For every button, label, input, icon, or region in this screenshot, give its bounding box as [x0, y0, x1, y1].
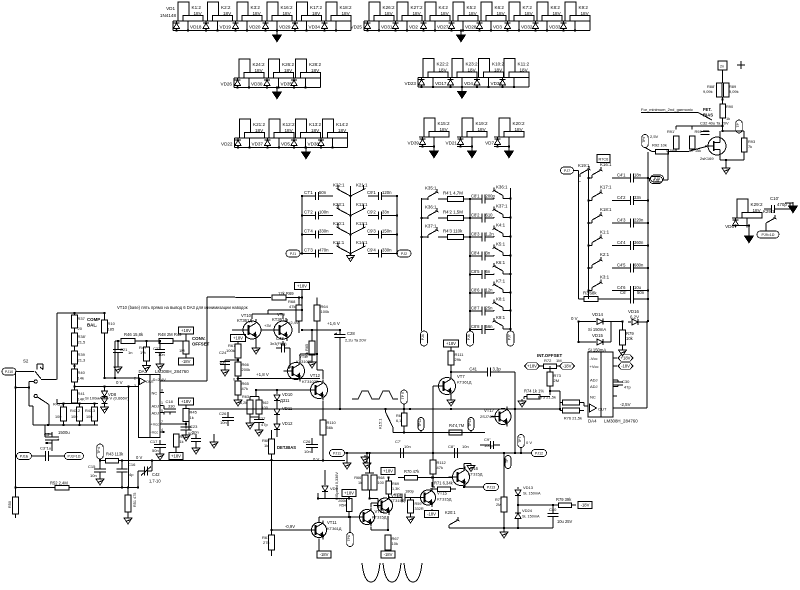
ground [725, 166, 727, 168]
resistor R62 [256, 400, 262, 414]
svg-text:PJ7: PJ7 [564, 169, 570, 173]
relay K23:2 [452, 59, 463, 78]
wire VT12 [305, 389, 311, 391]
svg-text:R4'1 4,7M: R4'1 4,7M [443, 191, 463, 196]
wire bottom [449, 527, 553, 529]
capacitor C9'4 [368, 253, 379, 255]
ground A [311, 360, 313, 362]
capacitor C9'1 [368, 195, 379, 197]
svg-text:2,5V: 2,5V [650, 134, 659, 139]
wire DA4 out up [646, 321, 648, 408]
svg-text:100: 100 [86, 415, 92, 419]
svg-text:14k: 14k [78, 376, 84, 381]
capacitor C7'1 [302, 195, 316, 197]
node [509, 328, 511, 330]
svg-text:NC: NC [590, 395, 596, 400]
ground A [622, 348, 624, 350]
ground A [503, 530, 505, 532]
resistor R93 [741, 138, 747, 152]
svg-text:18V: 18V [413, 11, 422, 16]
terminal +18Vc [169, 453, 183, 460]
svg-text:VD10: VD10 [282, 392, 293, 397]
svg-text:R37: R37 [78, 316, 86, 321]
svg-text:47k: 47k [289, 304, 295, 309]
svg-text:VD16: VD16 [628, 309, 640, 314]
resistor R90 [720, 104, 726, 118]
terminal PJ2 [397, 250, 411, 257]
wire center bus [350, 186, 352, 254]
svg-text:R39: R39 [78, 352, 86, 357]
resistor R65b 10k [309, 341, 315, 355]
svg-text:PJ2: PJ2 [401, 252, 407, 256]
svg-text:K1:2: K1:2 [192, 5, 202, 10]
svg-text:9,09k: 9,09k [729, 89, 739, 94]
node [409, 408, 411, 410]
svg-text:PJ4: PJ4 [421, 334, 425, 340]
svg-text:C8'4: C8'4 [471, 251, 480, 256]
svg-text:12n: 12n [486, 288, 494, 293]
svg-text:K7:2: K7:2 [523, 5, 533, 10]
op-amp triangle [590, 404, 597, 412]
svg-text:K10:2: K10:2 [492, 62, 504, 67]
terminal PJ1Б [17, 453, 32, 460]
svg-text:VD12: VD12 [282, 421, 293, 426]
svg-text:TP 6: TP 6 [97, 447, 101, 454]
node [509, 273, 511, 275]
relay K26:2 [369, 2, 380, 21]
svg-text:K17:2: K17:2 [310, 5, 322, 10]
wire [271, 460, 273, 530]
svg-text:R43.3: R43.3 [85, 409, 95, 413]
waveform [352, 391, 398, 399]
svg-text:1k: 1k [264, 443, 268, 448]
svg-text:NC: NC [152, 391, 158, 396]
svg-text:18V: 18V [753, 208, 762, 213]
terminal TP9 [642, 135, 649, 148]
resistor R43.2 [77, 407, 83, 421]
svg-text:PJ6: PJ6 [467, 334, 471, 340]
svg-text:0 V: 0 V [571, 316, 578, 321]
svg-text:18V: 18V [515, 127, 524, 132]
svg-text:1k: 1k [190, 415, 194, 420]
ground A [117, 365, 119, 367]
svg-text:ADJ: ADJ [590, 384, 598, 389]
svg-text:COMP: COMP [87, 317, 100, 322]
svg-text:18V: 18V [494, 68, 503, 73]
svg-text:C23: C23 [190, 424, 198, 429]
resistor R50 [13, 497, 19, 514]
wire rcol right bus [647, 152, 649, 321]
svg-text:VD33: VD33 [549, 25, 561, 30]
svg-text:R7C6: R7C6 [599, 158, 609, 162]
terminal +18V [179, 398, 194, 405]
ground A [99, 477, 101, 479]
svg-text:50n: 50n [152, 448, 159, 453]
svg-text:K18:2: K18:2 [340, 5, 352, 10]
svg-text:K12:2: K12:2 [283, 122, 295, 127]
svg-text:C7'1: C7'1 [304, 190, 313, 195]
resistor R54 200k [346, 499, 352, 512]
terminal PJ [467, 331, 474, 346]
svg-text:18V: 18V [283, 11, 292, 16]
svg-text:HISpeed 0,336V: HISpeed 0,336V [335, 472, 339, 500]
svg-text:K19:1: K19:1 [578, 163, 590, 168]
relay K29:2 [737, 199, 748, 218]
svg-text:VD4: VD4 [464, 81, 473, 86]
wire [419, 146, 434, 148]
relay K26:2 [269, 59, 280, 78]
wire vt11 col [318, 517, 320, 523]
resistor R110 56k [320, 420, 326, 435]
svg-text:3: 3 [134, 384, 136, 388]
wire VT10-VT9 [232, 329, 243, 331]
transistor VT11 [312, 523, 327, 538]
diode VD37 junction [237, 146, 239, 148]
wire [785, 202, 793, 204]
svg-text:+18V: +18V [527, 364, 537, 369]
wire VT7 [450, 372, 452, 378]
svg-text:18V: 18V [385, 11, 394, 16]
svg-text:100: 100 [71, 415, 77, 419]
svg-text:+18V: +18V [446, 341, 456, 346]
relay K4:2 [425, 2, 436, 21]
svg-text:18V: 18V [311, 128, 320, 133]
ground A [366, 461, 368, 463]
svg-text:18V: 18V [284, 68, 293, 73]
svg-text:0 V: 0 V [313, 457, 319, 462]
svg-text:10k R65: 10k R65 [305, 344, 309, 358]
ground A [350, 254, 352, 256]
svg-text:R50: R50 [8, 501, 12, 508]
svg-text:3,3p: 3,3p [493, 367, 502, 372]
node [301, 233, 303, 235]
svg-text:332R: 332R [415, 507, 424, 511]
svg-text:100: 100 [378, 481, 384, 485]
svg-text:C32 40u Ta 20V: C32 40u Ta 20V [700, 121, 729, 126]
diode VD19 junction [205, 29, 207, 31]
svg-text:C26: C26 [219, 411, 227, 416]
wire lower [393, 432, 485, 434]
svg-text:10k: 10k [626, 336, 634, 341]
svg-text:K22:2: K22:2 [437, 62, 449, 67]
resistor R68 47k [296, 305, 302, 321]
terminal -18V [317, 551, 331, 558]
svg-text:0 V: 0 V [116, 380, 123, 385]
node [301, 252, 303, 254]
relay K22:2 [423, 59, 434, 78]
svg-text:VD25: VD25 [351, 25, 363, 30]
diode VD36 junction [476, 86, 478, 88]
svg-text:K23:2: K23:2 [466, 62, 478, 67]
svg-text:+18V: +18V [181, 328, 191, 333]
svg-text:R43 113k: R43 113k [106, 452, 124, 457]
resistor R38' [72, 333, 78, 346]
diode VD28 junction [450, 29, 452, 31]
diode VD34 junction [294, 29, 296, 31]
node [509, 235, 511, 237]
svg-text:R79 39k: R79 39k [556, 497, 572, 502]
svg-text:C9'4: C9'4 [367, 248, 376, 253]
wire left bus [301, 196, 303, 254]
diode VD3 junction [478, 29, 480, 31]
svg-text:K36:1: K36:1 [425, 205, 437, 210]
svg-text:-18V: -18V [427, 512, 436, 517]
svg-text:18V: 18V [312, 11, 321, 16]
wire R43 top [57, 403, 98, 405]
svg-text:PJ9=1Ω: PJ9=1Ω [762, 233, 775, 237]
svg-text:18V: 18V [338, 128, 347, 133]
relay K14:2 [323, 119, 334, 138]
svg-text:K15:1: K15:1 [378, 418, 383, 429]
capacitor C7'2 [302, 215, 316, 217]
relay K17:2 [297, 2, 308, 21]
svg-text:R10: R10 [108, 321, 116, 326]
svg-text:6,2k: 6,2k [240, 401, 247, 405]
svg-text:8: 8 [161, 389, 163, 393]
terminal -18V [381, 551, 395, 558]
svg-text:R69: R69 [392, 482, 399, 486]
svg-text:7k: 7k [748, 144, 752, 149]
svg-text:3n: 3n [486, 251, 491, 256]
svg-text:1k: 1k [358, 481, 362, 485]
svg-text:C4'4: C4'4 [617, 240, 626, 245]
svg-text:VD17: VD17 [435, 81, 447, 86]
svg-text:-Vcc: -Vcc [590, 356, 598, 361]
terminal TP9b [401, 390, 408, 404]
diode VD35 junction [266, 86, 268, 88]
capacitor C4'4 [612, 245, 631, 247]
ground arrow [508, 147, 510, 152]
terminal PJ11 [330, 450, 345, 457]
svg-text:K3:2: K3:2 [251, 5, 261, 10]
ground arrow [276, 88, 278, 93]
resistor R40 [72, 369, 78, 382]
relay K11:2 [504, 59, 515, 78]
ground arrow [460, 31, 462, 36]
svg-text:KT315Д: KT315Д [468, 472, 483, 477]
svg-text:K16:2: K16:2 [281, 5, 293, 10]
svg-text:0 V: 0 V [233, 377, 239, 382]
svg-text:K16:1: K16:1 [600, 162, 612, 167]
svg-text:VD21: VD21 [446, 141, 458, 146]
svg-text:R43.2: R43.2 [70, 409, 80, 413]
wire [457, 146, 472, 148]
svg-text:KT361Д: KT361Д [237, 318, 252, 323]
svg-text:VT15: VT15 [437, 491, 448, 496]
svg-text:DA4: DA4 [588, 419, 597, 424]
node [301, 195, 303, 197]
svg-text:VT12: VT12 [310, 373, 321, 378]
svg-text:50n: 50n [319, 190, 327, 195]
terminal +18V [295, 283, 310, 290]
svg-text:VT17: VT17 [484, 408, 495, 413]
svg-text:18V: 18V [525, 11, 534, 16]
svg-text:TP9: TP9 [642, 137, 646, 143]
svg-text:20: 20 [78, 326, 83, 331]
transistor VT12 [311, 382, 328, 399]
svg-text:VD26: VD26 [221, 82, 233, 87]
wire right bus [396, 196, 398, 254]
relay K21:2 [240, 119, 251, 138]
capacitor C8'4 [470, 255, 482, 257]
wire 0V bus [105, 377, 139, 379]
svg-text:10n: 10n [304, 449, 311, 454]
svg-text:C26: C26 [303, 439, 311, 444]
relay K3:2 [237, 2, 248, 21]
svg-text:R54: R54 [339, 504, 346, 508]
svg-text:-Vcc: -Vcc [151, 431, 159, 435]
ground A [159, 452, 161, 454]
svg-text:18V: 18V [441, 11, 450, 16]
terminal PJ12 [532, 450, 547, 457]
wire bus 460 [119, 460, 346, 462]
terminal -18V [179, 358, 194, 365]
resistor R67 100k [235, 344, 241, 358]
svg-text:C17: C17 [150, 439, 158, 444]
capacitor C9'3 [368, 234, 379, 236]
svg-text:VD29: VD29 [279, 25, 291, 30]
svg-text:K7:1: K7:1 [496, 279, 506, 284]
svg-text:C30: C30 [622, 379, 630, 384]
resistor R49 1M [183, 341, 189, 354]
svg-text:+18V: +18V [233, 336, 243, 341]
relay K16:2 [267, 2, 278, 21]
svg-text:C4'5: C4'5 [617, 263, 626, 268]
terminal -18V [425, 511, 439, 518]
svg-text:18V: 18V [253, 11, 262, 16]
wire [494, 146, 509, 148]
svg-text:K14:2: K14:2 [336, 122, 348, 127]
svg-text:33n: 33n [382, 210, 390, 215]
svg-text:R71 6,34k: R71 6,34k [434, 481, 454, 486]
svg-text:1,2n: 1,2n [486, 232, 495, 237]
svg-text:6,1: 6,1 [396, 419, 401, 423]
svg-text:C8'7: C8'7 [471, 306, 480, 311]
ground A [521, 399, 523, 401]
svg-text:4: 4 [161, 428, 163, 432]
ground A [258, 428, 260, 430]
svg-text:18V: 18V [468, 68, 477, 73]
svg-text:-18V: -18V [384, 552, 393, 557]
svg-text:VD18: VD18 [190, 25, 202, 30]
svg-text:PJ1: PJ1 [290, 252, 296, 256]
svg-text:K21:2: K21:2 [253, 122, 265, 127]
svg-text:1,7-10: 1,7-10 [149, 479, 161, 484]
ground A [159, 362, 161, 364]
svg-text:C4'3: C4'3 [617, 218, 626, 223]
ground arrow [433, 147, 435, 152]
svg-text:R3'68k: R3'68k [583, 291, 597, 296]
svg-text:50n: 50n [637, 290, 645, 295]
svg-text:2M: 2M [554, 378, 560, 383]
svg-text:PJ10: PJ10 [5, 370, 13, 374]
svg-text:R74 1k 1%: R74 1k 1% [524, 389, 544, 394]
svg-text:LM308H_284760: LM308H_284760 [155, 369, 189, 374]
ground A [364, 455, 366, 457]
svg-text:K20:1: K20:1 [445, 510, 456, 515]
transistor VT8 [288, 363, 305, 380]
svg-text:K17:1: K17:1 [600, 185, 612, 190]
svg-text:2SJ74Б: 2SJ74Б [480, 414, 494, 419]
svg-text:VD32: VD32 [521, 25, 533, 30]
terminal PJ10 [2, 368, 16, 375]
wire mid col bus [469, 199, 471, 330]
svg-text:R68: R68 [378, 476, 385, 480]
ground arrow [792, 202, 794, 206]
capacitor C4'1 [612, 177, 631, 179]
svg-text:C4'2: C4'2 [617, 195, 626, 200]
svg-text:C9'1: C9'1 [367, 190, 376, 195]
svg-text:29k: 29k [455, 357, 461, 362]
svg-text:100: 100 [55, 415, 61, 419]
svg-text:+1,6 V: +1,6 V [327, 321, 340, 326]
svg-text:18V: 18V [439, 68, 448, 73]
svg-text:ADJ: ADJ [590, 378, 598, 383]
svg-text:C29: C29 [394, 492, 402, 497]
diode junction [501, 86, 503, 88]
svg-text:0 V: 0 V [136, 455, 142, 460]
svg-text:C6': C6' [620, 290, 626, 295]
svg-text:PJ8: PJ8 [653, 178, 659, 182]
resistor R68b 100 [371, 475, 377, 490]
svg-text:K37:1: K37:1 [425, 224, 437, 229]
svg-text:2: 2 [134, 377, 136, 381]
wire [722, 97, 724, 104]
diode VD20 junction [234, 29, 236, 31]
relay K15:2 [424, 118, 435, 137]
svg-text:R51 475: R51 475 [133, 493, 137, 507]
svg-text:PJ11: PJ11 [333, 451, 341, 455]
svg-text:K13:1: K13:1 [356, 221, 368, 226]
svg-text:KT3102Б: KT3102Б [302, 379, 319, 384]
node [509, 254, 511, 256]
capacitor C8'2 [470, 217, 482, 219]
svg-text:K4:1: K4:1 [496, 223, 506, 228]
svg-text:-18V: -18V [563, 364, 572, 369]
svg-text:2M: 2M [496, 503, 501, 507]
svg-text:56k: 56k [327, 425, 333, 430]
diode VD2 junction [394, 29, 396, 31]
ground A VT10 [255, 341, 257, 346]
relay K24:2 [239, 59, 250, 78]
relay K2:2 [208, 2, 219, 21]
svg-text:-18V: -18V [320, 552, 329, 557]
svg-text:6,2V: 6,2V [630, 315, 639, 320]
svg-text:47k: 47k [242, 386, 248, 391]
wire bus [364, 30, 590, 32]
svg-text:VD27: VD27 [437, 25, 449, 30]
pin OUT wire [613, 407, 647, 409]
svg-text:DET.BIAS: DET.BIAS [277, 445, 296, 450]
wire r73 [550, 390, 560, 392]
svg-text:VD30: VD30 [251, 82, 263, 87]
wire 453 [352, 452, 532, 454]
wire [722, 70, 724, 83]
svg-text:33n: 33n [634, 195, 642, 200]
svg-text:TP13: TP13 [468, 419, 472, 427]
resistor R89 [723, 83, 729, 97]
svg-text:TP8: TP8 [347, 535, 351, 541]
wire [732, 225, 749, 227]
svg-text:K35:1: K35:1 [425, 186, 437, 191]
terminal +18Vb [342, 490, 356, 497]
relay K13:2 [296, 119, 307, 138]
svg-text:C9'3: C9'3 [367, 229, 376, 234]
resistor R76 [563, 408, 580, 413]
svg-text:K19:2: K19:2 [476, 121, 488, 126]
svg-text:R92: R92 [695, 129, 702, 134]
svg-text:180p: 180p [405, 489, 415, 494]
